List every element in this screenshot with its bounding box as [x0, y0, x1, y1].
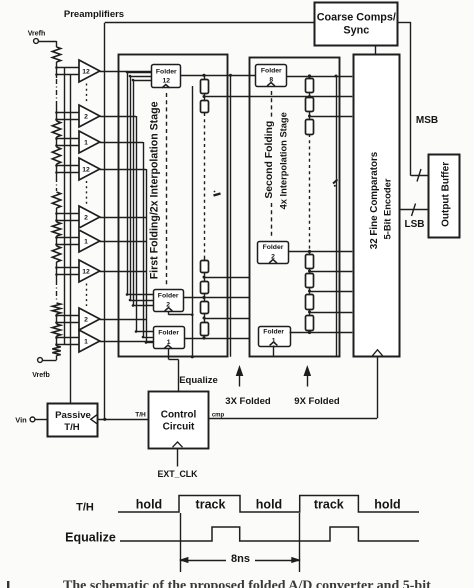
svg-text:Passive: Passive — [55, 410, 91, 421]
label hold 1 — [136, 498, 162, 512]
wire ladder seg — [56, 164, 58, 177]
wire ladder to Vrefb — [43, 356, 57, 361]
node Vrefh terminal — [28, 31, 46, 44]
wire folder12 inputs — [126, 71, 152, 82]
wire routing bundle v6 — [146, 169, 148, 343]
folder U2a (Folder 2) — [154, 290, 184, 312]
resistor Rj2 — [306, 98, 314, 112]
block First Folding/2x Interpolation Stage — [119, 55, 228, 357]
block Second Folding 4x Interpolation Stage — [250, 58, 340, 357]
label 4x Interpolation Stage — [279, 112, 289, 209]
svg-text:EXT_CLK: EXT_CLK — [157, 469, 198, 479]
svg-text:MSB: MSB — [416, 115, 438, 126]
dimension arrow 8ns — [180, 551, 300, 565]
svg-text:hold: hold — [136, 498, 162, 512]
label T/H timing — [76, 502, 94, 514]
resistor Ri3 — [201, 261, 209, 273]
arrow 3X folded — [236, 367, 242, 387]
wire tap 312 to fine comparators — [308, 311, 352, 314]
caption fragment — [7, 579, 431, 588]
svg-text:LSB: LSB — [405, 219, 425, 230]
svg-text:Equalize: Equalize — [65, 531, 116, 545]
clock caret folder8 — [267, 83, 275, 86]
wire Vrefh to ladder — [38, 41, 56, 47]
svg-text:12: 12 — [82, 269, 90, 276]
preamp column dots a — [86, 84, 88, 105]
wire folder1 caret to equalize — [168, 349, 170, 357]
resistor ladder Rh — [52, 324, 60, 336]
svg-text:cmp: cmp — [212, 412, 225, 418]
svg-text:hold: hold — [374, 498, 400, 512]
block Coarse Comps/Sync — [315, 3, 398, 46]
svg-text:Equalize: Equalize — [179, 375, 218, 386]
svg-text:1: 1 — [84, 140, 88, 147]
dimension tick right — [299, 513, 301, 572]
clock caret folder2 stage1 — [165, 308, 173, 311]
resistor Rj7 — [306, 316, 314, 331]
wire ladder seg — [56, 314, 58, 324]
wire routing bundle v1 — [127, 72, 129, 295]
wire chain1 seg — [204, 257, 206, 282]
resistor Rj5 — [306, 274, 314, 288]
svg-text:T/H: T/H — [76, 502, 94, 514]
wire chain1 dash — [204, 113, 206, 257]
folder U1a (Folder 1) — [154, 327, 185, 349]
svg-text:T/H: T/H — [135, 412, 146, 419]
svg-text:12: 12 — [82, 69, 90, 76]
label EXT_CLK — [157, 469, 198, 479]
folder U1b (Folder 1) — [259, 327, 291, 347]
label 32 Fine Comparators — [369, 151, 380, 249]
wire folder12 output to folder8 — [181, 74, 256, 77]
folders dash-dot stage2 lower — [271, 203, 273, 237]
wire chain2 seg — [309, 309, 311, 315]
wire EXT_CLK — [177, 448, 179, 467]
svg-text:Folder: Folder — [263, 329, 284, 336]
resistor Rj6 — [306, 295, 314, 310]
wire MSB — [398, 22, 429, 176]
wire ladder seg — [56, 336, 58, 346]
resistor Rj4 — [306, 255, 314, 269]
arrowhead T/H output — [91, 415, 98, 425]
clock caret folder1 stage2 — [270, 342, 278, 345]
wire ladder tap stubs to preamp inputs — [55, 66, 79, 346]
svg-text:12: 12 — [163, 78, 171, 85]
wire chain1 seg — [204, 314, 206, 323]
label 9X Folded — [294, 396, 340, 407]
preamp A8 — [79, 308, 100, 330]
wire ladder dash-dot b — [56, 177, 58, 191]
arrow 9X folded — [304, 367, 310, 387]
block Passive T/H — [48, 404, 98, 437]
block 32 Fine Comparators / 5-Bit Encoder — [354, 55, 400, 357]
svg-text:2: 2 — [84, 317, 88, 324]
svg-text:Output Buffer: Output Buffer — [441, 162, 452, 227]
wire chain2 dash — [309, 134, 311, 251]
wire folder1 stage2 output — [290, 331, 353, 334]
svg-text:1: 1 — [84, 239, 88, 246]
wire folder2 (stage1) inputs — [126, 293, 153, 307]
bus width mark 1 (stage1) — [214, 191, 221, 196]
wire T/H to control circuit — [98, 419, 148, 421]
svg-text:Coarse Comps/: Coarse Comps/ — [317, 12, 396, 24]
wire ladder seg — [56, 105, 58, 121]
svg-text:Folder: Folder — [158, 292, 179, 299]
label hold 2 — [256, 498, 282, 512]
label Equalize timing — [65, 531, 116, 545]
resistor Rj3 — [306, 120, 314, 135]
wire chain2 seg — [309, 76, 311, 79]
svg-text:track: track — [314, 498, 344, 512]
resistor Rj1 — [306, 79, 314, 93]
preamp A5 — [79, 206, 100, 228]
svg-text:track: track — [196, 498, 226, 512]
preamp A1 — [79, 60, 100, 82]
wire chain2 seg — [309, 269, 311, 274]
wire folder8 output to fine comparators — [287, 74, 352, 77]
wire routing bundle v3 — [133, 80, 135, 306]
label T/H signal — [135, 412, 146, 419]
block Control Circuit — [149, 392, 209, 449]
svg-text:9X Folded: 9X Folded — [294, 396, 340, 407]
preamp column dots b — [86, 181, 88, 205]
wire folder1 (stage1) inputs — [135, 330, 154, 344]
wire cmp to fine comparators clock — [209, 358, 378, 419]
svg-text:1: 1 — [84, 339, 88, 346]
preamp A9 — [79, 330, 100, 352]
svg-text:The schematic of the proposed: The schematic of the proposed folded A/D… — [63, 579, 431, 588]
svg-text:12: 12 — [82, 167, 90, 174]
wire chain1 seg — [204, 94, 206, 101]
clock caret control circuit — [173, 442, 183, 447]
svg-text:Folder: Folder — [156, 69, 177, 76]
folder U8 (Folder 8) — [256, 65, 287, 87]
resistor ladder R top — [52, 47, 60, 62]
svg-text:2: 2 — [84, 215, 88, 222]
wire ladder dash-dot a — [56, 79, 58, 105]
folder U2b (Folder 2) — [258, 242, 289, 264]
wire ladder dash-dot c — [56, 280, 58, 302]
preamp A6 — [79, 230, 100, 252]
wire chain2 seg — [309, 251, 311, 255]
svg-text:5-Bit Encoder: 5-Bit Encoder — [382, 178, 393, 239]
clock caret folder12 — [162, 85, 170, 88]
wire ladder seg — [56, 137, 58, 147]
label First Folding/2x Interpolation Stage — [149, 101, 161, 279]
wire tap 291 to fine comparators — [308, 290, 352, 293]
wire equalize riser — [169, 357, 179, 391]
bus width mark 1 (stage2) — [333, 180, 338, 187]
label 3X Folded — [225, 396, 271, 407]
wire input signal rail (vertical to T/H output node) — [103, 23, 106, 421]
label track 2 — [314, 498, 344, 512]
wire folder2 stage1 output — [183, 296, 249, 299]
clock caret fine comparators — [372, 350, 384, 357]
wire stage1 right vertical — [229, 74, 232, 357]
svg-text:Preamplifiers: Preamplifiers — [64, 9, 124, 20]
label Preamplifiers — [64, 9, 124, 20]
wire preamp outputs — [100, 72, 154, 342]
preamp A4 — [79, 158, 100, 180]
label Equalize — [179, 375, 218, 386]
wire ladder seg — [56, 236, 58, 246]
folder U12 (Folder 12) — [152, 65, 181, 88]
preamp A7 — [79, 260, 100, 282]
folders dash-dot stage1 — [166, 93, 168, 285]
bus slash LSB — [412, 204, 416, 217]
label cmp — [212, 412, 225, 418]
block Output Buffer — [429, 155, 460, 238]
svg-text:T/H: T/H — [64, 422, 80, 433]
preamp A3 — [79, 131, 100, 153]
wire equalize vertical stage1 — [191, 86, 194, 358]
resistor ladder Ri — [52, 346, 60, 356]
node Vin terminal — [15, 415, 35, 424]
resistor Ri4 — [201, 282, 209, 294]
preamp column dots c — [86, 284, 88, 307]
preamp A2 — [79, 105, 100, 127]
wire chain1 seg — [204, 336, 206, 338]
wire chain2 seg — [309, 330, 311, 333]
resistor ladder Re — [52, 222, 60, 236]
svg-text:8ns: 8ns — [231, 553, 250, 565]
svg-text:Folder: Folder — [261, 68, 282, 75]
label track 1 — [196, 498, 226, 512]
wire folder1 stage1 output — [184, 336, 250, 339]
folders dash-dot stage2 upper — [271, 91, 273, 118]
node Vrefb terminal — [32, 358, 50, 379]
wire ladder seg — [56, 62, 58, 78]
wire ladder seg — [56, 208, 58, 222]
svg-text:First Folding/2x Interpolation: First Folding/2x Interpolation Stage — [149, 101, 161, 279]
wire LSB — [399, 209, 429, 211]
svg-text:Second Folding: Second Folding — [264, 121, 275, 199]
svg-text:Vrefb: Vrefb — [32, 372, 50, 379]
wire tap 116 to fine comparators — [308, 115, 352, 118]
resistor Ri5 — [201, 302, 209, 314]
wire routing bundle v5 — [143, 142, 145, 337]
svg-text:hold: hold — [256, 498, 282, 512]
label MSB — [416, 115, 438, 126]
svg-text:Folder: Folder — [263, 244, 284, 251]
wire signal rail B from T/H — [70, 75, 72, 404]
svg-text:Sync: Sync — [343, 25, 369, 37]
svg-text:2: 2 — [84, 114, 88, 121]
wire routing bundle v4 — [136, 116, 138, 332]
label 5-Bit Encoder — [382, 178, 393, 239]
bus slash MSB — [417, 169, 421, 182]
wire coarse to fine comparators — [375, 45, 377, 55]
wire chain1 seg — [204, 293, 206, 301]
wire ladder seg — [56, 262, 58, 280]
dimension tick left — [180, 513, 182, 572]
clock caret folder1 stage1 — [164, 345, 172, 348]
wire folder2 caret to equalize — [169, 311, 194, 316]
svg-text:Folder: Folder — [158, 330, 179, 337]
wire reference bus rail A — [64, 68, 66, 345]
resistor ladder Rg — [52, 303, 60, 314]
wire folder2 stage2 output — [289, 250, 353, 253]
resistor ladder Rd — [52, 192, 60, 208]
clock caret folder2 stage2 — [269, 260, 277, 263]
svg-text:Vin: Vin — [15, 415, 27, 424]
wire Vin to T/H — [35, 419, 48, 421]
waveform T/H — [118, 496, 419, 513]
resistor Ri1 — [201, 80, 209, 94]
wire chain2 seg — [309, 112, 311, 119]
wire routing bundle v2 — [130, 76, 132, 300]
wire tap 96 to fine comparators — [203, 95, 353, 98]
resistor Ri2 — [201, 101, 209, 113]
wire folder1 stage2 caret stub — [273, 346, 275, 357]
wire tap 277 — [203, 276, 250, 279]
wire input to coarse comps (top) — [105, 22, 315, 24]
svg-text:Control: Control — [161, 410, 197, 421]
resistor ladder Rf — [52, 246, 60, 262]
wire tap 318 — [203, 317, 250, 320]
wire stage2 inner vertical — [335, 75, 338, 357]
svg-text:4x Interpolation Stage: 4x Interpolation Stage — [279, 112, 289, 209]
label Output Buffer — [441, 162, 452, 227]
svg-text:32 Fine Comparators: 32 Fine Comparators — [369, 151, 380, 249]
svg-text:Circuit: Circuit — [163, 422, 195, 433]
svg-text:Vrefh: Vrefh — [28, 31, 46, 38]
waveform Equalize — [120, 527, 419, 541]
svg-text:3X Folded: 3X Folded — [225, 396, 271, 407]
label LSB — [405, 219, 425, 230]
resistor ladder Rb — [52, 121, 60, 137]
label hold 3 — [374, 498, 400, 512]
resistor ladder Rc — [52, 147, 60, 164]
label Second Folding — [264, 121, 275, 199]
wire chain1 seg — [204, 75, 206, 79]
wire tap 271 to fine comparators — [308, 270, 352, 273]
resistor Ri6 — [201, 323, 209, 336]
wire chain2 seg — [309, 288, 311, 294]
wire chain2 seg — [309, 93, 311, 98]
